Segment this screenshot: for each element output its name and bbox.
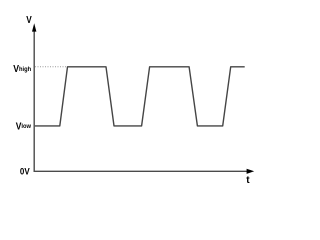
vertical axis V: [33, 29, 35, 171]
dotted reference line at Vhigh: [35, 66, 67, 68]
svg-text:V: V: [26, 14, 32, 25]
svg-text:Vhigh: Vhigh: [13, 64, 31, 76]
svg-text:Vlow: Vlow: [16, 121, 31, 132]
svg-text:t: t: [246, 175, 250, 186]
vertical axis arrowhead: [32, 23, 36, 31]
horizontal axis arrowhead: [247, 169, 255, 174]
svg-text:0V: 0V: [20, 166, 30, 177]
horizontal axis t: [34, 170, 249, 172]
waveform trapezoidal pulses: [35, 67, 245, 126]
